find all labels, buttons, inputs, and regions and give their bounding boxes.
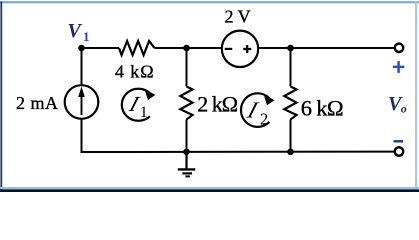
mesh current I2 loop arrow [241,93,275,127]
svg-text:o: o [401,102,407,116]
svg-text:1: 1 [140,104,148,121]
ground symbol [178,152,196,176]
svg-text:V: V [68,20,83,42]
node A junction dot (top of 2k) [183,45,190,52]
svg-text:2 V: 2 V [225,7,251,27]
svg-text:I: I [243,98,261,123]
terminal + open circle [395,44,403,52]
ground node junction dot [183,149,190,156]
svg-text:6 kΩ: 6 kΩ [301,95,343,120]
wire: 2k resistor to ground node [186,120,188,153]
mesh current I1 loop arrow [122,89,156,121]
wire: node A down to 2k resistor [186,48,188,87]
wire: 4k resistor to node A [155,47,187,49]
wire: node B to + terminal [291,47,395,49]
resistor R=4kΩ zigzag [119,41,155,55]
wire: node A to 2V source [187,47,223,49]
minus sign of output port (blue) [394,140,404,143]
voltage source plus sign [243,45,251,53]
wire top-left: node V1 to 4k resistor [82,47,120,49]
current source arrow (up) [81,94,83,115]
wire: current source to bottom rail [81,119,83,152]
svg-text:2 mA: 2 mA [16,93,59,113]
resistor R=2kΩ zigzag [180,87,192,120]
bottom rail wire [81,151,395,153]
svg-text:2 kΩ: 2 kΩ [197,92,238,117]
wire: 6k resistor to bottom rail [290,120,292,153]
voltage source minus sign [225,48,233,50]
plus sign of output port (blue) [393,61,405,73]
wire: 2V source to node B [257,47,290,49]
wire: node V1 down to current source [81,48,83,85]
terminal - open circle [395,147,403,155]
junction dot bottom of 6k [287,149,294,156]
svg-text:1: 1 [83,29,90,44]
resistor R=6kΩ zigzag [284,87,296,120]
current source I=2mA circle [65,85,99,119]
frame (decorative) [0,1,419,3]
svg-text:2: 2 [260,109,268,128]
node V1 dot [78,45,85,52]
voltage source V=2V circle [222,31,258,67]
node B junction dot (top of 6k) [287,45,294,52]
wire: node B down to 6k resistor [290,48,292,87]
svg-text:4 kΩ: 4 kΩ [115,61,154,81]
